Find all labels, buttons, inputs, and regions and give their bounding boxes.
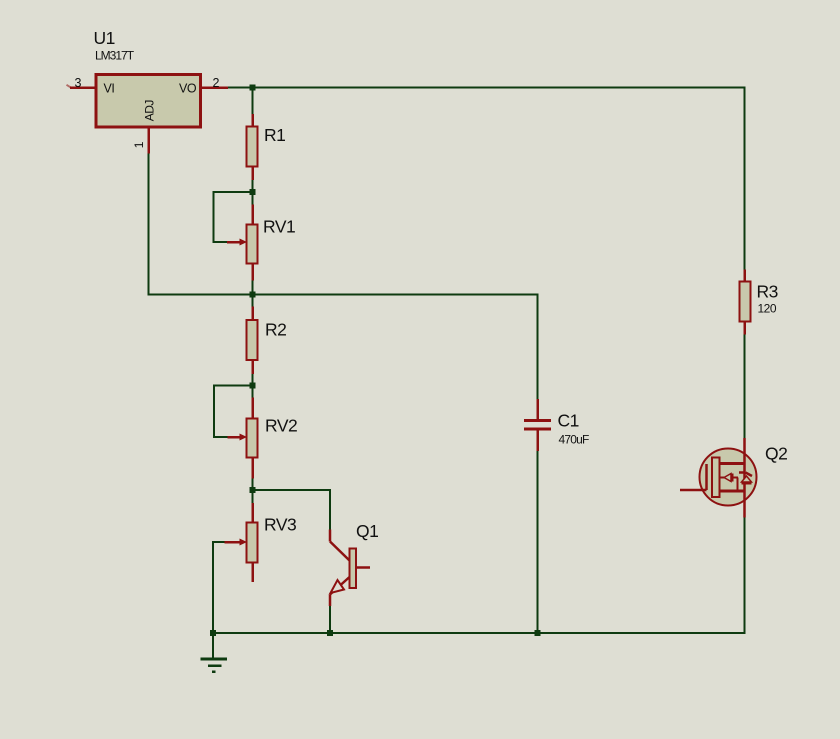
- svg-text:2: 2: [213, 76, 220, 90]
- svg-text:Q1: Q1: [356, 521, 378, 541]
- svg-text:R1: R1: [264, 125, 285, 145]
- svg-text:C1: C1: [558, 411, 579, 431]
- svg-text:120: 120: [758, 302, 777, 316]
- svg-text:R3: R3: [757, 282, 778, 302]
- svg-text:RV1: RV1: [263, 217, 295, 237]
- svg-text:470uF: 470uF: [559, 433, 589, 447]
- svg-text:VO: VO: [179, 82, 197, 96]
- svg-text:VI: VI: [104, 82, 115, 96]
- svg-text:RV2: RV2: [265, 416, 297, 436]
- svg-text:ADJ: ADJ: [142, 100, 156, 122]
- svg-text:LM317T: LM317T: [95, 48, 135, 62]
- svg-text:U1: U1: [94, 28, 115, 48]
- svg-text:3: 3: [75, 76, 82, 90]
- svg-text:1: 1: [132, 141, 146, 148]
- svg-text:R2: R2: [265, 320, 286, 340]
- svg-text:Q2: Q2: [765, 444, 787, 464]
- svg-text:RV3: RV3: [264, 515, 296, 535]
